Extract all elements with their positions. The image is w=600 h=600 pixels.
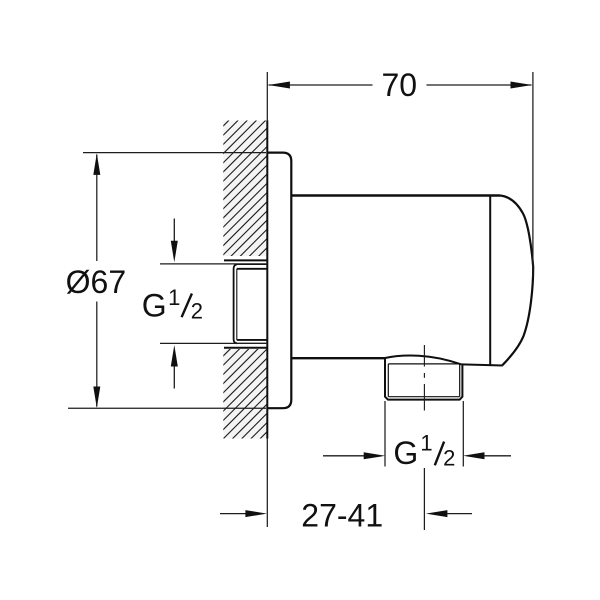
svg-text:27-41: 27-41 bbox=[301, 497, 383, 533]
dim G12 left arrows bbox=[173, 219, 175, 243]
inlet thread inner bbox=[236, 269, 238, 340]
wall hole top edge bbox=[224, 259, 267, 261]
dim G12 bottom arrows bbox=[323, 455, 364, 457]
svg-text:G: G bbox=[393, 435, 418, 471]
bottom line under dome bbox=[462, 364, 503, 365]
svg-text:2: 2 bbox=[443, 445, 455, 470]
dim 70 extension right bbox=[532, 72, 534, 277]
escutcheon flange bbox=[267, 153, 291, 409]
dim O67 extension bottom bbox=[68, 407, 266, 409]
svg-text:2: 2 bbox=[191, 299, 203, 324]
outlet centerline bbox=[423, 345, 425, 367]
outlet fairing arch bbox=[385, 356, 462, 365]
svg-text:70: 70 bbox=[382, 67, 418, 103]
dim 27-41 arrows bbox=[220, 513, 246, 515]
dim G12 left extension bottom bbox=[160, 342, 267, 344]
dim O67 extension top bbox=[83, 152, 266, 154]
body bottom line bbox=[291, 357, 385, 359]
dim 70 line bbox=[269, 84, 373, 86]
dim G12 bottom extension left bbox=[384, 401, 386, 467]
dim O67 line bbox=[96, 155, 98, 262]
dim G12 bottom extension right bbox=[462, 401, 464, 467]
svg-text:1: 1 bbox=[168, 285, 180, 310]
wall hole bottom edge bbox=[224, 347, 267, 349]
svg-text:Ø67: Ø67 bbox=[66, 264, 126, 300]
wall face line bbox=[266, 72, 268, 121]
dim 27-41 centerline extension bbox=[423, 468, 425, 530]
cap joint line bbox=[489, 196, 491, 366]
dim G12 left extension top bbox=[160, 263, 267, 265]
body top line bbox=[291, 194, 500, 196]
svg-text:G: G bbox=[142, 288, 167, 324]
dome outline bbox=[500, 196, 533, 366]
inlet thread outer bbox=[234, 264, 237, 343]
svg-text:1: 1 bbox=[420, 430, 432, 455]
outlet nipple thread inner bbox=[388, 363, 459, 365]
outlet nipple outer bbox=[385, 358, 462, 400]
